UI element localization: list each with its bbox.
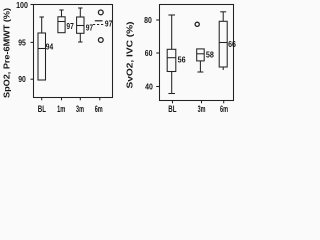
svg-text:1m: 1m (57, 104, 65, 114)
svg-text:40: 40 (145, 82, 153, 91)
svg-text:SvO2, IVC (%): SvO2, IVC (%) (126, 21, 135, 88)
svg-text:90: 90 (18, 75, 26, 84)
svg-text:3m: 3m (198, 104, 206, 114)
svg-text:94: 94 (46, 42, 54, 51)
svg-text:SpO2, Pre-6MWT (%): SpO2, Pre-6MWT (%) (3, 8, 12, 98)
svg-text:6m: 6m (220, 104, 228, 114)
svg-text:97: 97 (66, 22, 73, 31)
svg-text:6m: 6m (95, 104, 103, 114)
svg-text:97: 97 (86, 23, 93, 32)
svg-text:BL: BL (38, 104, 47, 114)
svg-text:95: 95 (18, 38, 26, 47)
svg-text:80: 80 (144, 16, 152, 25)
svg-text:100: 100 (16, 1, 28, 10)
svg-text:60: 60 (145, 49, 153, 58)
svg-text:BL: BL (168, 104, 177, 114)
svg-text:56: 56 (178, 55, 187, 64)
svg-text:58: 58 (206, 50, 215, 59)
svg-text:97: 97 (105, 20, 112, 29)
svg-text:66: 66 (228, 40, 236, 49)
svg-text:3m: 3m (76, 104, 84, 114)
